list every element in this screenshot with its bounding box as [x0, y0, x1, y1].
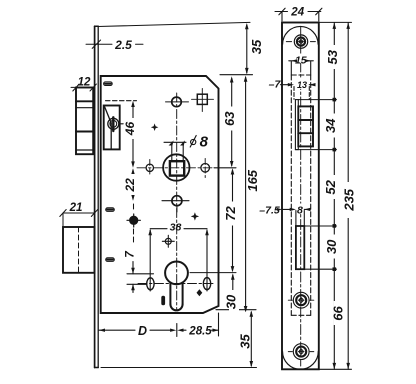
- latch bolt front: [298, 106, 313, 146]
- dimension 30 left view: [231, 273, 235, 312]
- latch bolt: [76, 88, 93, 155]
- svg-text:35: 35: [249, 39, 264, 54]
- lock case outline: [101, 76, 219, 313]
- dimension 165: [244, 76, 248, 313]
- follower hub: [163, 154, 189, 180]
- svg-text:165: 165: [245, 169, 260, 191]
- dimension 66: [334, 301, 344, 325]
- chain dimension line 53 34 52 30 66: [333, 23, 335, 370]
- svg-text:30: 30: [324, 239, 339, 254]
- latch housing inside case: [104, 106, 120, 150]
- rounded end arc bottom: [283, 351, 319, 369]
- top hole: [166, 97, 189, 107]
- dimension 53: [328, 45, 338, 69]
- dimension 22: [131, 168, 135, 201]
- vertical centreline: [176, 93, 178, 310]
- screw hole left of cylinder: [147, 278, 154, 290]
- svg-text:8: 8: [200, 134, 209, 151]
- svg-text:35: 35: [237, 334, 252, 349]
- dimension 24: [275, 8, 322, 21]
- filled diamond marker: [197, 289, 203, 296]
- dimension dia 8: [164, 136, 196, 161]
- cylinder cutout front: [296, 226, 304, 269]
- dimension 30: [327, 235, 337, 259]
- stud star middle: [191, 212, 199, 220]
- svg-text:12: 12: [78, 77, 91, 89]
- slot marker top: [104, 82, 113, 86]
- dimension 35 bottom: [250, 311, 254, 368]
- follower square spindle hole: [170, 161, 184, 175]
- svg-text:66: 66: [331, 306, 346, 321]
- hole right of follower: [201, 159, 210, 178]
- extension cylinder centre right: [190, 272, 236, 274]
- euro cylinder hole: [165, 262, 188, 311]
- screw hole right of cylinder: [203, 278, 210, 290]
- dimension 72: [231, 168, 235, 272]
- dimension D and 28.5 backset: [99, 313, 219, 337]
- svg-text:–7: –7: [269, 78, 282, 90]
- svg-text:15: 15: [295, 55, 307, 67]
- dimension 46: [131, 101, 135, 168]
- small hole with cross: [162, 235, 174, 247]
- svg-text:52: 52: [323, 179, 338, 194]
- dimension 35 top: [245, 23, 249, 74]
- extension lines right view: [295, 22, 351, 369]
- svg-text:72: 72: [223, 206, 238, 221]
- dimension 7: [123, 250, 154, 293]
- hole with centre cross: [127, 214, 140, 227]
- svg-text:235: 235: [342, 188, 357, 211]
- svg-text:53: 53: [325, 49, 340, 64]
- horizontal centreline follower: [137, 167, 214, 169]
- svg-text:63: 63: [222, 111, 237, 126]
- extension line bottom: [101, 367, 257, 369]
- svg-text:24: 24: [290, 7, 304, 19]
- hole left of follower: [146, 160, 153, 177]
- hole below follower: [162, 196, 189, 212]
- svg-text:22: 22: [123, 178, 137, 193]
- svg-text:34: 34: [323, 118, 338, 133]
- rounded end arc top: [283, 26, 319, 44]
- svg-text:13: 13: [297, 80, 307, 90]
- slot marker lower: [106, 258, 115, 262]
- centre column dashes: [133, 204, 135, 212]
- hidden line latch axis: [106, 100, 137, 102]
- faceplate front view outline: [282, 23, 319, 370]
- dimension 34: [326, 114, 336, 138]
- dimension 52: [326, 175, 336, 199]
- dimension 2.5 faceplate thickness: [86, 40, 143, 48]
- deadbolt: [63, 227, 95, 273]
- svg-text:2.5: 2.5: [114, 38, 132, 52]
- slot marker middle: [106, 208, 115, 212]
- faceplate side view: [95, 26, 99, 367]
- extension line case bottom: [216, 309, 256, 311]
- svg-text:38: 38: [170, 222, 182, 234]
- svg-text:30: 30: [223, 294, 238, 309]
- centreline front view: [300, 27, 302, 366]
- svg-text:28.5: 28.5: [188, 326, 212, 338]
- extension follower centre right: [214, 167, 236, 169]
- latch spring screw: [108, 117, 123, 131]
- stud star upper: [151, 123, 159, 131]
- hidden case edges: [291, 75, 310, 315]
- dimension 21 deadbolt projection: [60, 210, 98, 228]
- svg-text:21: 21: [69, 202, 83, 214]
- middle screw: [288, 292, 314, 308]
- square hole with cross: [192, 89, 214, 112]
- dimension 12 latch projection: [71, 84, 96, 91]
- dimension 7.5 and 8: [277, 208, 311, 226]
- svg-text:8: 8: [297, 204, 303, 216]
- svg-text:D: D: [138, 324, 147, 338]
- svg-text:–7.5: –7.5: [259, 204, 280, 216]
- dimension 235: [347, 23, 349, 370]
- extension line top: [98, 22, 250, 26]
- extension case top right: [220, 74, 253, 76]
- top screw: [286, 35, 315, 48]
- filled slot marker: [161, 296, 165, 306]
- dimension 63: [230, 76, 234, 167]
- latch cutout: [295, 100, 298, 150]
- bottom screw: [288, 344, 314, 360]
- svg-text:46: 46: [123, 122, 137, 137]
- dimension 15: [289, 61, 314, 75]
- horizontal centreline cylinder screw row: [138, 283, 214, 285]
- dimension 13 and 7: [281, 83, 316, 99]
- dimension 38: [148, 229, 208, 291]
